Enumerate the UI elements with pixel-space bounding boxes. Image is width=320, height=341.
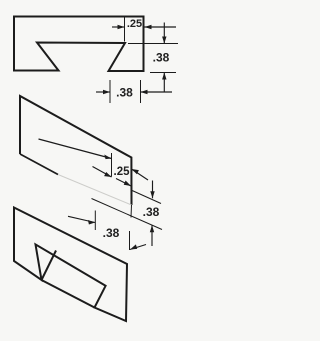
svg-text:.25: .25 <box>127 18 142 30</box>
svg-text:.38: .38 <box>116 86 133 100</box>
svg-text:.38: .38 <box>143 205 160 219</box>
svg-text:.25: .25 <box>114 166 131 178</box>
svg-text:.38: .38 <box>103 226 120 240</box>
svg-text:.38: .38 <box>153 51 170 65</box>
